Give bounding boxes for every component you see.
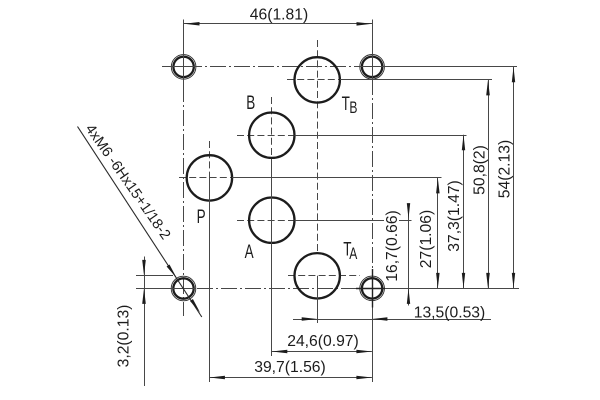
crosshair top-left hole [167, 66, 201, 68]
dimension line 46 [184, 23, 372, 25]
port A [249, 198, 294, 243]
mounting hole bottom-left [171, 276, 196, 301]
arrow 27 bottom [436, 273, 440, 289]
dimension line 50.8 [488, 80, 490, 289]
svg-text:37,3(1.47): 37,3(1.47) [446, 180, 463, 252]
extension line right holes down [372, 308, 374, 383]
svg-text:39,7(1.56): 39,7(1.56) [254, 359, 326, 376]
dimension line 39.7 [209, 377, 372, 379]
svg-text:A: A [349, 245, 357, 263]
centerline port B horizontal [237, 135, 295, 137]
leader arrow end [190, 299, 200, 313]
dimension line 27 [437, 178, 439, 289]
dimension line 37.3 [463, 135, 465, 289]
arrow 39.7 left [209, 376, 225, 379]
extension line right hole up [372, 20, 374, 80]
centerline bottom holes horizontal [197, 288, 356, 290]
extension line A right [295, 220, 412, 222]
arrow 3.2 top [142, 260, 146, 276]
svg-text:T: T [342, 94, 350, 115]
label 46(1.81) [250, 7, 308, 24]
label TB [342, 94, 358, 118]
svg-text:27(1.06): 27(1.06) [418, 210, 435, 268]
crosshair bottom-right hole [356, 269, 385, 308]
centerline port A horizontal [237, 220, 295, 222]
dimension line 3.2 [144, 257, 146, 387]
dimension line 24.6 [272, 351, 372, 353]
arrow 16.7 top [407, 203, 410, 219]
mounting hole top-right [360, 55, 385, 80]
arrow 13.5 right [372, 317, 388, 321]
arrow 50.8 bottom [486, 273, 490, 289]
extension line B right [295, 135, 467, 137]
centerline port P horizontal [179, 177, 232, 179]
centerline left holes vertical [183, 86, 185, 316]
arrow 46 left [184, 22, 200, 26]
dimension line 54 [513, 67, 515, 289]
arrow 37.3 top [462, 135, 465, 151]
port P [187, 155, 232, 200]
arrow 50.8 top [486, 80, 490, 96]
arrow 54 top [512, 67, 515, 83]
svg-text:46(1.81): 46(1.81) [250, 7, 308, 24]
leader line 4xM6 [78, 127, 202, 318]
svg-text:B: B [349, 99, 357, 117]
label 3,2(0.13) [116, 305, 133, 368]
label 27(1.06) [418, 210, 435, 268]
label P [197, 207, 206, 228]
svg-text:A: A [245, 242, 254, 263]
centerline port TA horizontal [288, 275, 360, 277]
svg-text:50,8(2): 50,8(2) [472, 145, 489, 195]
svg-text:16,7(0.66): 16,7(0.66) [384, 210, 401, 282]
svg-text:3,2(0.13): 3,2(0.13) [116, 305, 133, 368]
label 39,7(1.56) [254, 359, 326, 376]
arrow 3.2 bottom [142, 288, 146, 304]
extension line A-B centerline down [271, 159, 273, 356]
arrow 39.7 right [356, 376, 372, 379]
label 50,8(2) [472, 145, 489, 195]
dimension line 13.5 [293, 319, 491, 321]
extension line TA left [136, 275, 173, 277]
svg-text:24,6(0.97): 24,6(0.97) [287, 333, 359, 350]
arrow 54 bottom [512, 273, 515, 289]
label 16,7(0.66) [384, 210, 401, 282]
centerline top holes extension right [384, 66, 517, 68]
centerline right holes vertical [372, 79, 374, 269]
label 54(2.13) [497, 140, 514, 198]
label TA [343, 240, 357, 264]
svg-text:4xM6 -6Hx15+1/18-2: 4xM6 -6Hx15+1/18-2 [82, 122, 174, 243]
crosshair top-right hole [355, 66, 389, 68]
centerline ports B-A vertical [271, 97, 273, 159]
mounting hole top-left [171, 55, 196, 80]
label 4xM6-6Hx15+1/18-2 [82, 122, 174, 243]
port TA [295, 253, 340, 298]
centerline port P vertical [209, 141, 211, 178]
svg-text:P: P [197, 207, 206, 228]
extension line TB right [340, 79, 492, 81]
centerline port TB horizontal [287, 79, 340, 81]
dimension line 16.7 [408, 204, 410, 306]
arrow 37.3 bottom [462, 273, 465, 289]
extension line bottom holes left [136, 288, 196, 290]
label 24,6(0.97) [287, 333, 359, 350]
arrow 24.6 left [272, 350, 288, 353]
arrow 24.6 right [356, 350, 372, 353]
label 37,3(1.47) [446, 180, 463, 252]
extension line P right [232, 177, 442, 179]
extension line bottom holes right [385, 288, 519, 290]
label 13,5(0.53) [414, 305, 486, 322]
arrow 27 top [436, 178, 440, 194]
port B [249, 113, 294, 158]
port TB [295, 57, 340, 102]
extension line TA down [317, 276, 319, 323]
arrow 46 right [357, 22, 373, 26]
centerline top holes horizontal [162, 66, 384, 68]
mounting hole bottom-right [360, 276, 385, 301]
label B [246, 93, 255, 114]
arrow 13.5 left [302, 317, 318, 321]
svg-text:54(2.13): 54(2.13) [497, 140, 514, 198]
extension line P centerline down [209, 178, 211, 382]
svg-text:13,5(0.53): 13,5(0.53) [414, 305, 486, 322]
leader arrow at hole [167, 265, 177, 279]
label A [245, 242, 254, 263]
arrow 16.7 bottom [407, 288, 410, 304]
extension line left hole up [183, 20, 185, 87]
svg-text:B: B [246, 93, 255, 114]
centerline ports T vertical [317, 40, 319, 251]
